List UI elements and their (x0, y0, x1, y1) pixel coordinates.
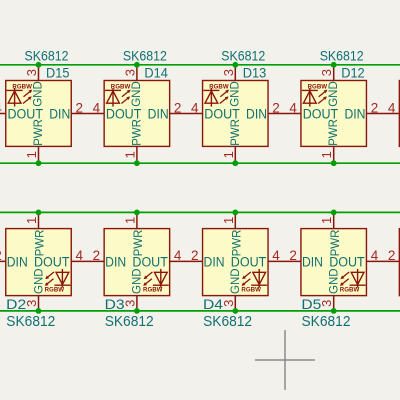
svg-text:RGBW: RGBW (241, 286, 261, 293)
pin 3 (GND) stub of D4 (234, 296, 236, 311)
svg-text:RGBW: RGBW (111, 83, 131, 90)
junction on GND bus at D13 (232, 62, 238, 68)
svg-text:RGBW: RGBW (12, 83, 32, 90)
svg-text:DIN: DIN (246, 106, 267, 121)
svg-text:4: 4 (191, 100, 199, 115)
svg-text:SK6812: SK6812 (25, 47, 69, 63)
svg-text:GND: GND (33, 81, 45, 107)
svg-text:SK6812: SK6812 (302, 313, 351, 330)
pin 3 (GND) stub of D14 (136, 65, 138, 81)
svg-text:3: 3 (122, 69, 137, 76)
pin 1 (PWR) stub of D5 (333, 212, 335, 228)
svg-text:2: 2 (174, 100, 182, 115)
LED graphic of D15 (7, 88, 33, 107)
svg-text:D13: D13 (243, 64, 267, 80)
svg-text:2: 2 (93, 248, 101, 263)
svg-text:4: 4 (371, 248, 379, 263)
svg-text:SK6812: SK6812 (6, 313, 55, 330)
pin 1 (PWR) stub of D12 (333, 146, 335, 163)
pin 3 (GND) stub of D13 (234, 65, 236, 81)
svg-text:1: 1 (221, 217, 236, 224)
svg-text:SK6812: SK6812 (320, 47, 364, 63)
svg-text:SK6812: SK6812 (203, 313, 252, 330)
junction on GND bus at D4 (232, 308, 238, 314)
cursor crosshair (255, 330, 315, 390)
svg-text:1: 1 (319, 151, 334, 158)
svg-text:1: 1 (221, 151, 236, 158)
junction on PWR bus at D4 (232, 210, 238, 216)
svg-text:3: 3 (24, 69, 39, 76)
LED graphic of D3 (143, 269, 169, 288)
wire data chain top row (0, 112, 400, 114)
junction on GND bus at D12 (331, 62, 337, 68)
svg-text:GND: GND (328, 81, 340, 107)
svg-text:2: 2 (0, 248, 2, 263)
junction on GND bus at D15 (36, 62, 42, 68)
junction on PWR bus at D3 (134, 210, 140, 216)
symbol D12 body (301, 81, 367, 147)
symbol D13 body (203, 81, 268, 147)
symbol D15 body (6, 81, 72, 147)
wire PWR bus bottom row (0, 211, 400, 213)
svg-text:2: 2 (191, 248, 199, 263)
wire GND bus top row (0, 64, 400, 66)
LED graphic of D2 (45, 269, 71, 288)
svg-text:PWR: PWR (133, 230, 145, 257)
pin 1 (PWR) stub of D4 (234, 212, 236, 228)
svg-text:PWR: PWR (328, 119, 340, 146)
pin 3 (GND) stub of D2 (38, 296, 40, 311)
junction on PWR bus at D15 (36, 160, 42, 166)
LED graphic of D4 (242, 269, 268, 288)
svg-text:SK6812: SK6812 (221, 47, 265, 63)
svg-text:3: 3 (319, 300, 334, 307)
junction on GND bus at D5 (331, 308, 337, 314)
pin 1 (PWR) stub of D15 (38, 146, 40, 163)
svg-text:PWR: PWR (330, 230, 342, 257)
symbol D4 body (203, 229, 268, 296)
svg-text:SK6812: SK6812 (105, 313, 154, 330)
symbol D6 body (399, 229, 400, 296)
pin 3 (GND) stub of D3 (136, 296, 138, 311)
svg-text:2: 2 (371, 100, 379, 115)
junction on PWR bus at D12 (331, 160, 337, 166)
svg-text:3: 3 (221, 69, 236, 76)
svg-text:PWR: PWR (232, 230, 244, 257)
svg-text:DIN: DIN (105, 254, 126, 269)
LED graphic of D13 (203, 88, 229, 107)
junction on GND bus at D2 (36, 308, 42, 314)
svg-text:1: 1 (24, 217, 39, 224)
pin 1 (PWR) stub of D2 (38, 212, 40, 228)
svg-text:GND: GND (132, 268, 144, 294)
svg-text:2: 2 (76, 100, 84, 115)
svg-text:3: 3 (122, 300, 137, 307)
svg-text:PWR: PWR (131, 119, 143, 146)
symbol D2 body (6, 229, 72, 296)
svg-text:RGBW: RGBW (143, 286, 163, 293)
svg-text:PWR: PWR (35, 230, 47, 257)
svg-text:1: 1 (122, 151, 137, 158)
symbol D11 body (399, 81, 400, 147)
LED graphic of D12 (302, 88, 328, 107)
svg-text:DIN: DIN (7, 254, 28, 269)
svg-text:GND: GND (131, 81, 143, 107)
svg-text:3: 3 (221, 300, 236, 307)
svg-text:D14: D14 (144, 64, 168, 80)
svg-text:4: 4 (76, 248, 84, 263)
junction on PWR bus at D2 (36, 210, 42, 216)
svg-text:PWR: PWR (33, 119, 45, 146)
wire PWR bus top row (0, 162, 400, 164)
svg-text:DIN: DIN (344, 106, 365, 121)
svg-text:1: 1 (319, 217, 334, 224)
wire GND bus bottom row (0, 310, 400, 312)
pin 1 (PWR) stub of D3 (136, 212, 138, 228)
svg-text:RGBW: RGBW (308, 83, 328, 90)
svg-text:4: 4 (174, 248, 182, 263)
pin 3 (GND) stub of D5 (333, 296, 335, 311)
svg-text:3: 3 (24, 300, 39, 307)
pin 1 (PWR) stub of D13 (234, 146, 236, 163)
svg-text:RGBW: RGBW (45, 286, 65, 293)
svg-text:D15: D15 (46, 64, 70, 80)
svg-text:RGBW: RGBW (209, 83, 229, 90)
svg-text:RGBW: RGBW (340, 286, 360, 293)
junction on GND bus at D3 (134, 308, 140, 314)
svg-text:1: 1 (24, 151, 39, 158)
pin 3 (GND) stub of D12 (333, 65, 335, 81)
svg-text:4: 4 (388, 100, 396, 115)
svg-text:4: 4 (289, 100, 297, 115)
svg-text:GND: GND (230, 268, 242, 294)
symbol D5 body (301, 229, 367, 296)
junction on PWR bus at D13 (232, 160, 238, 166)
svg-text:DIN: DIN (148, 106, 169, 121)
svg-text:GND: GND (33, 268, 45, 294)
svg-text:GND: GND (329, 268, 341, 294)
svg-text:2: 2 (289, 248, 297, 263)
svg-text:2: 2 (272, 100, 280, 115)
svg-text:PWR: PWR (230, 119, 242, 146)
LED graphic of D14 (105, 88, 131, 107)
LED graphic of D5 (340, 269, 366, 288)
junction on GND bus at D14 (134, 62, 140, 68)
svg-text:SK6812: SK6812 (123, 47, 167, 63)
pin 1 (PWR) stub of D14 (136, 146, 138, 163)
svg-text:GND: GND (230, 81, 242, 107)
svg-text:DIN: DIN (302, 254, 323, 269)
svg-text:3: 3 (319, 69, 334, 76)
svg-text:4: 4 (93, 100, 101, 115)
pin 3 (GND) stub of D15 (38, 65, 40, 81)
symbol D3 body (104, 229, 169, 296)
svg-text:4: 4 (272, 248, 280, 263)
svg-text:1: 1 (122, 217, 137, 224)
wire data chain bottom row (0, 260, 400, 262)
svg-text:DIN: DIN (49, 106, 70, 121)
junction on PWR bus at D14 (134, 160, 140, 166)
svg-text:2: 2 (388, 248, 396, 263)
symbol D14 body (104, 81, 169, 147)
svg-text:DIN: DIN (204, 254, 225, 269)
svg-text:D12: D12 (341, 64, 365, 80)
junction on PWR bus at D5 (331, 210, 337, 216)
